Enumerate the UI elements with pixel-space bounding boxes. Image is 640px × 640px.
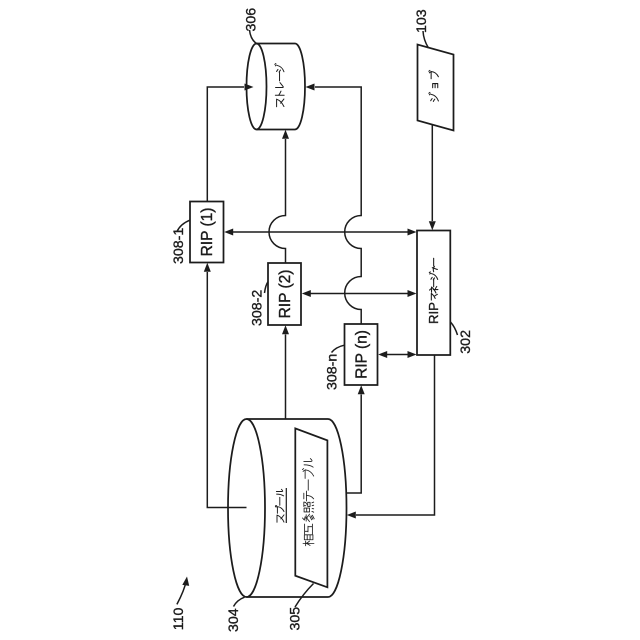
wire RIPn to manager double arrow bbox=[378, 351, 416, 358]
label 306 bbox=[244, 8, 260, 32]
wire manager to spool bottom bbox=[347, 355, 435, 519]
wire RIP2 to manager double arrow bbox=[302, 290, 417, 297]
RIP manager kana text bbox=[429, 258, 438, 300]
svg-text:308-n: 308-n bbox=[325, 354, 341, 390]
leader 308-2 bbox=[265, 282, 269, 294]
wire RIPn to storage bottom with humps bbox=[306, 84, 362, 325]
RIP (1) box 308-1 bbox=[190, 202, 224, 263]
leader 103 bbox=[423, 31, 429, 48]
svg-text:110: 110 bbox=[171, 607, 187, 630]
storage label text bbox=[275, 64, 284, 107]
leader 304 bbox=[234, 597, 245, 606]
spool label underline bbox=[285, 488, 287, 523]
job parallelogram 103 bbox=[418, 45, 454, 131]
label 308-1 bbox=[171, 228, 187, 264]
leader 308-n bbox=[332, 345, 345, 352]
leader 306 bbox=[250, 30, 258, 44]
svg-text:302: 302 bbox=[458, 330, 474, 354]
spool label text bbox=[275, 489, 284, 522]
label 110 bbox=[171, 607, 187, 630]
svg-text:304: 304 bbox=[226, 608, 242, 632]
svg-text:RIP (2): RIP (2) bbox=[277, 270, 294, 319]
svg-text:RIP: RIP bbox=[426, 302, 441, 324]
leader 308-1 bbox=[177, 220, 190, 231]
wire RIP1 to manager double arrow bbox=[224, 229, 416, 236]
RIP (n) box 308-n bbox=[345, 324, 378, 385]
svg-text:308-2: 308-2 bbox=[250, 290, 266, 326]
wire RIP2 to storage left with hump bbox=[269, 130, 289, 263]
wire spool bottom to RIPn bbox=[346, 385, 365, 493]
label 305 bbox=[288, 607, 304, 631]
svg-text:RIP (1): RIP (1) bbox=[199, 208, 216, 257]
spool cylinder 304 bbox=[228, 419, 347, 597]
svg-text:306: 306 bbox=[244, 8, 260, 32]
storage cylinder 306 bbox=[247, 44, 306, 130]
svg-text:103: 103 bbox=[414, 9, 430, 33]
wire spool right to RIP2 bbox=[282, 325, 289, 419]
svg-text:308-1: 308-1 bbox=[171, 228, 187, 264]
label 308-n bbox=[325, 354, 341, 390]
cross-reference table parallelogram 305 bbox=[295, 428, 327, 587]
leader 302 bbox=[451, 322, 458, 335]
cross-reference table text bbox=[302, 459, 314, 546]
leader 305 bbox=[295, 584, 314, 608]
label 308-2 bbox=[250, 290, 266, 326]
wire job to manager bbox=[429, 125, 436, 230]
RIP (2) box 308-2 bbox=[268, 263, 301, 325]
RIP manager box 302 bbox=[417, 231, 450, 356]
label 103 bbox=[414, 9, 430, 33]
svg-text:305: 305 bbox=[288, 607, 304, 631]
job label text bbox=[429, 70, 439, 101]
label 302 bbox=[458, 330, 474, 354]
svg-text:RIP (n): RIP (n) bbox=[354, 330, 371, 379]
arrow 110 bbox=[177, 576, 191, 604]
wire RIP1 to storage top bbox=[207, 84, 253, 202]
wire spool top to RIP1 bbox=[204, 263, 247, 508]
label 304 bbox=[226, 608, 242, 632]
